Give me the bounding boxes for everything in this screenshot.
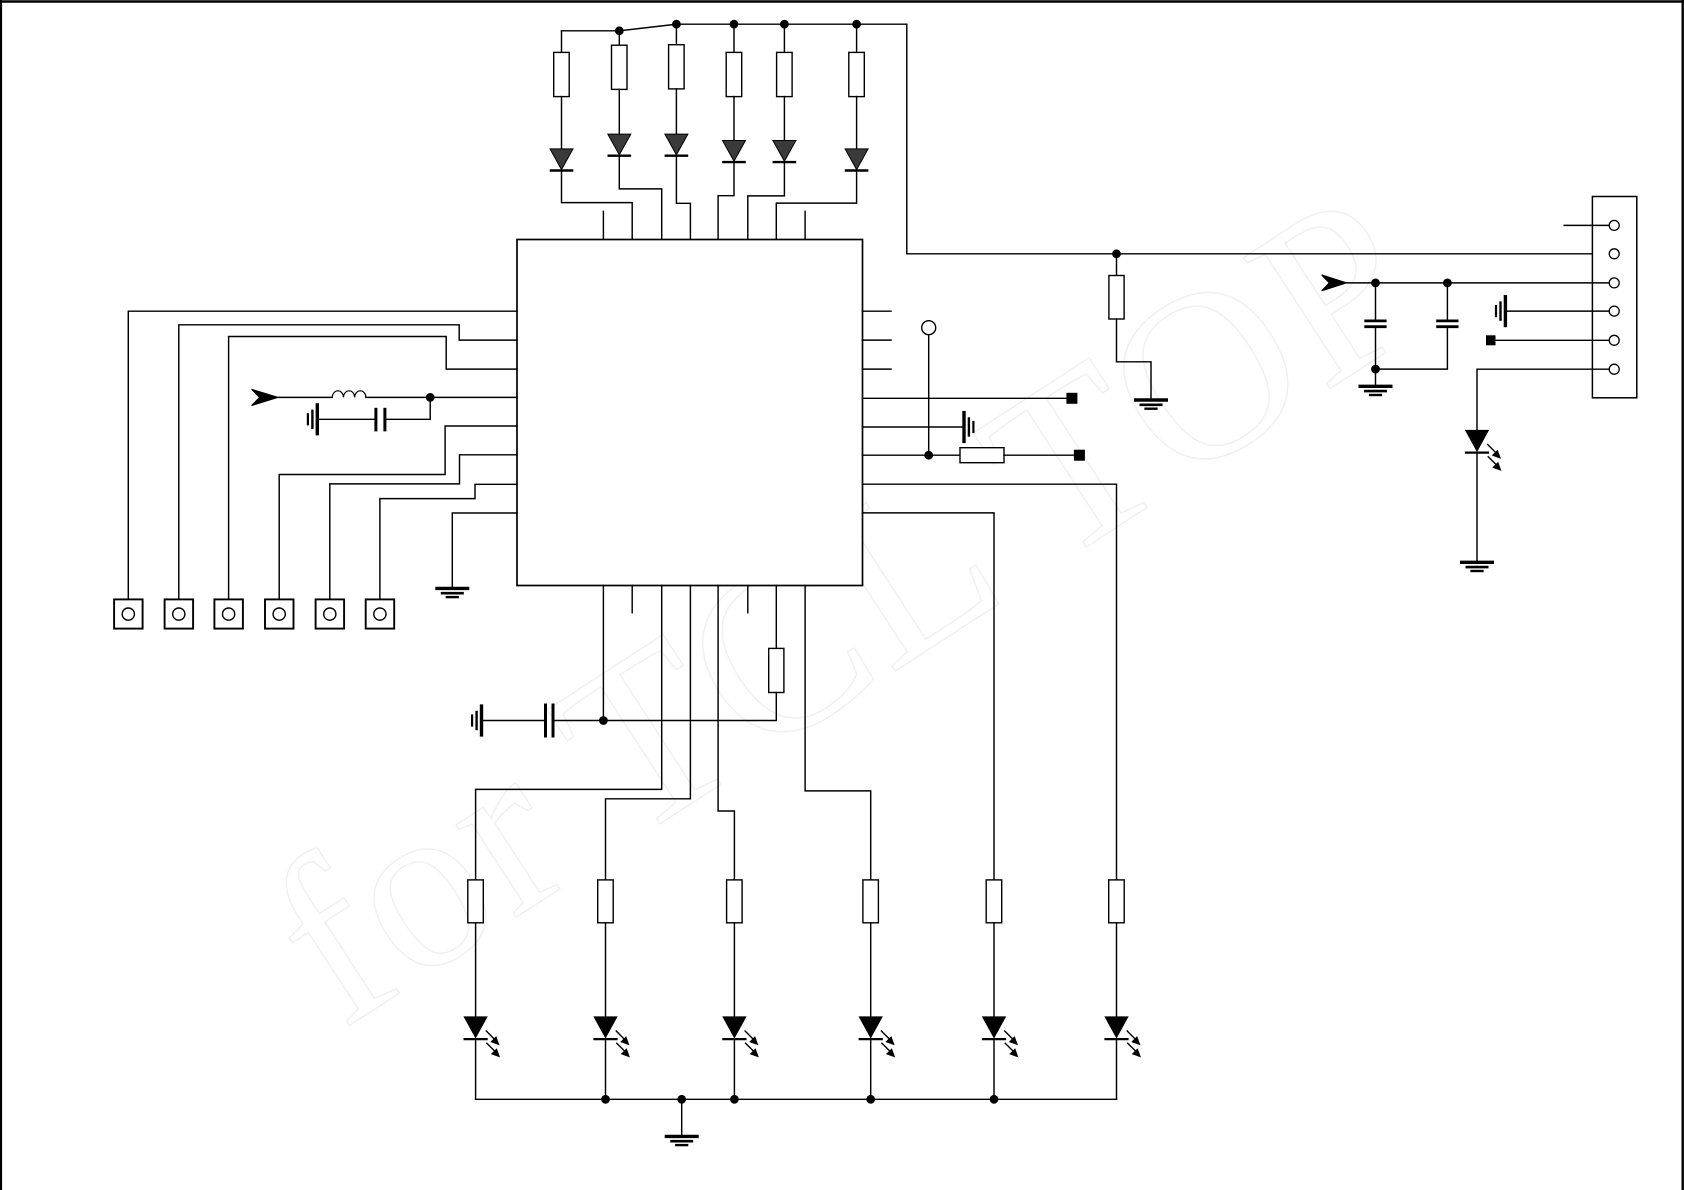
wire test point down [928,335,930,456]
ground signal bars [964,413,973,442]
ground signal bars [472,706,481,735]
junction node [426,393,435,402]
wire pin L8 to ground [452,513,517,587]
wire R15 to LED [1116,923,1118,1017]
node pad square [1074,450,1085,461]
wire D2 to pin [619,157,661,240]
resistor R15 [1109,880,1125,923]
wire bus to ground [681,1099,683,1135]
resistor R2 [612,45,628,89]
wire pin 6 to LED [1477,369,1609,430]
wire key1 to pin L1 [128,311,517,599]
capacitor C3 [1438,321,1458,327]
wire col3 top [675,24,677,45]
resistor R10 [468,880,484,923]
wire R4 to D4 [733,97,735,141]
diode D4 [723,141,746,163]
wire col4 top [733,24,735,52]
wire stub pin 1 [1564,224,1609,226]
LED D14 [1105,1017,1140,1057]
wire LED to bus [1116,1040,1118,1100]
key switch S6 [366,599,395,628]
wire to capacitor C3 [1446,283,1448,320]
wire key2 to pin L2 [179,325,517,600]
wire R3 to D3 [675,89,677,134]
ground [1136,400,1167,409]
resistor R12 [727,880,743,923]
wire key5 to pin L6 [330,455,517,600]
wire D6 to pin [776,172,856,240]
resistor R5 [777,52,793,96]
resistor R13 [863,880,879,923]
wire LED to bus [605,1040,607,1100]
resistor R9 [769,648,784,692]
resistor R8 [1109,276,1124,320]
key switch S5 [316,599,345,628]
wire D5 to pin [748,163,785,239]
junction node [1371,279,1380,288]
wire LED to bus [870,1040,872,1100]
wire R2 to D2 [618,89,620,134]
wire R1 to D1 [561,97,563,149]
wire stub pin T1 [602,211,604,239]
junction node [677,1095,686,1104]
wire R13 to LED [870,923,872,1017]
inductor L1 [332,391,366,398]
wire pin B7 to resistor [775,586,777,649]
connector P1 body [1592,197,1636,398]
wire pin R8 to LED column 5 [863,513,995,880]
wire pin B5 to LED column 3 [718,586,734,880]
capacitor C4 [546,705,554,736]
wire arrow to inductor [278,396,332,398]
resistor R14 [986,880,1002,923]
wire C3 to junction [1376,328,1448,369]
wire bottom ground bus [476,1098,1117,1100]
wire top supply bus [676,23,906,25]
junction node [1371,365,1380,374]
ground signal bars [1496,297,1505,326]
wire D1 to pin [562,172,633,240]
node input arrow [1322,275,1347,291]
connector pin 5 [1609,335,1619,345]
wire C2 to ground [1375,328,1377,369]
resistor R1 [554,52,570,96]
wire key6 to pin L7 [380,484,517,599]
wire pin B4 to LED column 2 [606,586,691,880]
diode D6 [845,149,868,171]
ground [666,1136,697,1145]
node pad square [1066,393,1077,404]
wire stub pin R3 [863,368,892,370]
junction node [615,26,624,35]
wire resistor to pad [1004,454,1074,456]
wire R5 to D5 [783,97,785,141]
wire C4 to ground [483,720,544,722]
junction node [1112,249,1121,258]
wire stub pin R1 [863,310,892,312]
wire bus to connector drop [907,24,1609,254]
wire LED to bus [475,1040,477,1100]
wire to capacitor C2 [1375,283,1377,320]
wire LED to bus [993,1040,995,1100]
ground signal bars [308,405,317,434]
wire pin R7 to LED column 6 [863,484,1117,880]
wire pin B1 down [602,586,604,721]
ground [1462,562,1493,571]
resistor R11 [598,880,614,923]
node input arrow [252,389,279,405]
wire top supply bus left segment [562,30,620,32]
wire stub pin R2 [863,339,892,341]
wire col2 top [618,31,620,45]
wire pin R6 to resistor [863,454,961,456]
junction node [730,1095,739,1104]
wire C1 to ground [319,418,375,420]
wire arrow to pin 3 [1347,282,1610,284]
op-amp U1 main IC body [517,240,863,586]
node test point circle [922,321,936,335]
LED D13 [983,1017,1018,1057]
connector pin 3 [1609,278,1619,288]
wire bars to pin 4 [1507,310,1609,312]
LED D12 [859,1017,894,1057]
key switch S4 [265,599,294,628]
wire R6 to D6 [856,97,858,149]
wire inductor to pin L4 [366,396,517,398]
wire stub pin T8 [804,211,806,239]
resistor R6 [849,52,865,96]
wire resistor to ground [1117,319,1152,398]
wire R11 to LED [605,923,607,1017]
wire pin B8 to LED column 4 [805,586,871,880]
connector pin 4 [1609,306,1619,316]
wire stub pin B6 [747,586,749,613]
diode D1 [550,149,573,171]
key switch S1 [114,599,143,628]
junction node [1443,279,1452,288]
wire D3 to pin [676,157,690,240]
wire LED to bus [733,1040,735,1100]
junction node [672,20,681,29]
capacitor C1 [376,409,385,430]
junction node [780,20,789,29]
wire R12 to LED [733,923,735,1017]
junction node [866,1095,875,1104]
wire pin B3 to LED column 1 [476,586,662,880]
wire key4 to pin L5 [279,426,517,599]
wire key3 to pin L3 [229,337,517,600]
LED D10 [594,1017,629,1057]
wire top supply bus slope [619,24,676,31]
wire R14 to LED [993,923,995,1017]
diode D2 [608,134,631,156]
junction node [730,20,739,29]
key switch S3 [214,599,243,628]
ground [437,588,468,597]
LED D9 [464,1017,499,1057]
diode D3 [665,134,688,156]
wire D4 to pin [718,163,734,239]
wire junction to ground [1375,369,1377,385]
wire junction to resistor [1116,254,1118,276]
diode D5 [773,141,796,163]
connector pin 2 [1609,249,1619,259]
wire col5 top [783,24,785,52]
wire pad to pin 5 [1496,339,1610,341]
junction node [601,1095,610,1104]
capacitor C2 [1366,321,1386,327]
resistor R4 [726,52,742,96]
wire col6 top [856,24,858,52]
junction node [990,1095,999,1104]
wire pin R5 to ground [863,426,963,428]
junction node [852,20,861,29]
junction node [599,716,608,725]
wire R10 to LED [475,923,477,1017]
key switch S2 [165,599,194,628]
wire junction to capacitor C4 [555,720,604,722]
wire LED to ground [1476,453,1478,560]
connector pin 6 [1609,364,1619,374]
resistor R7 [960,448,1004,463]
LED D8 [1466,430,1501,470]
wire pin R4 to pad [863,397,1067,399]
LED D11 [723,1017,758,1057]
wire resistor to junction [603,693,776,721]
junction node [924,451,933,460]
wire col1 top [561,31,563,53]
wire junction to capacitor C1 [386,397,430,419]
ground [1360,386,1391,395]
wire stub pin B2 [631,586,633,613]
connector pin 1 [1609,220,1619,230]
resistor R3 [669,45,685,89]
node pad square [1486,335,1496,345]
